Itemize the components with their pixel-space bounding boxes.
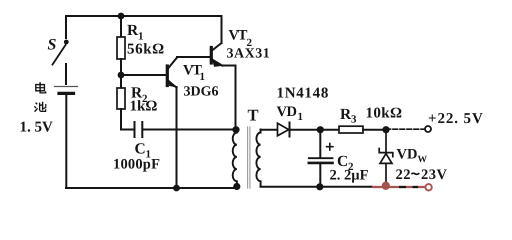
wire R3 right lead <box>363 129 386 131</box>
terminal +22.5V <box>425 126 431 132</box>
transformer T primary winding <box>233 133 237 185</box>
wire C1 to primary top <box>143 129 234 131</box>
transformer core <box>248 127 250 188</box>
wire R1 bottom lead <box>120 59 122 75</box>
label battery 池 <box>34 102 45 112</box>
svg-text:C: C <box>135 141 146 158</box>
label battery 电 <box>36 82 46 93</box>
svg-text:3DG6: 3DG6 <box>184 85 219 100</box>
wire diode to node <box>290 129 320 131</box>
resistor R1 56k <box>117 37 125 59</box>
node primary bottom <box>233 183 240 190</box>
wire node to + terminal (dashed) <box>386 128 425 130</box>
svg-text:22: 22 <box>396 167 412 183</box>
wire zener top lead <box>385 133 387 152</box>
node C2 bottom <box>316 183 323 190</box>
terminal bottom (red) <box>425 184 431 190</box>
wire VT1 collector to VT2 base <box>177 56 210 58</box>
wire black dashes over red rail <box>399 186 418 188</box>
switch S <box>53 40 69 65</box>
diode VD1 1N4148 <box>278 123 290 137</box>
wire left rail upper <box>65 16 67 38</box>
wire secondary top to diode <box>261 129 278 131</box>
transistor VT2 3AX31 <box>211 43 222 67</box>
svg-text:1: 1 <box>298 111 304 123</box>
svg-text:VD: VD <box>277 104 297 120</box>
wire VT2 collector to top rail <box>221 16 223 43</box>
svg-text:3AX31: 3AX31 <box>227 47 271 62</box>
capacitor C2 2.2uF <box>309 158 333 163</box>
wire battery to bottom rail <box>65 95 67 188</box>
svg-text:10kΩ: 10kΩ <box>366 106 403 122</box>
wire base node to VT1 <box>121 74 166 76</box>
node base of VT1 <box>118 72 125 79</box>
wire VT2 emitter to primary top <box>222 66 236 127</box>
wire node down to C2 <box>319 130 321 157</box>
capacitor C1 1000pF <box>135 122 143 137</box>
svg-text:S: S <box>48 37 57 54</box>
transformer T secondary winding <box>256 130 260 187</box>
svg-text:VT: VT <box>229 28 248 44</box>
wire bottom rail left <box>66 187 237 189</box>
svg-text:VD: VD <box>397 147 418 163</box>
svg-text:1: 1 <box>200 71 206 83</box>
node R3 / zener top <box>382 126 389 133</box>
wire bottom rail secondary black part <box>261 186 373 188</box>
svg-text:23V: 23V <box>421 167 448 183</box>
svg-text:56kΩ: 56kΩ <box>127 42 165 58</box>
svg-text:1kΩ: 1kΩ <box>130 99 158 115</box>
wire R3 left lead <box>320 129 339 131</box>
wire R2 top lead <box>120 75 122 88</box>
svg-text:W: W <box>418 155 428 165</box>
wire C2 to bottom rail <box>319 165 321 187</box>
svg-text:2. 2µF: 2. 2µF <box>330 168 369 184</box>
battery B1 plates <box>55 87 78 94</box>
svg-text:+22. 5V: +22. 5V <box>428 111 484 127</box>
node VT1 emitter / ground <box>173 185 180 192</box>
resistor R2 1k <box>117 88 125 109</box>
wire VT1 emitter down <box>176 87 178 188</box>
svg-text:1N4148: 1N4148 <box>277 86 330 102</box>
capacitor C2 plus sign <box>327 144 333 151</box>
transistor VT1 3DG6 <box>167 58 177 88</box>
wire top rail <box>66 15 221 17</box>
node diode / C2 / R3 <box>317 126 324 133</box>
node top rail / R1 <box>118 13 125 20</box>
svg-text:T: T <box>248 106 259 125</box>
wire bottom rail red segment <box>372 186 425 188</box>
wire R2 bottom lead <box>121 109 133 130</box>
wire zener bottom lead <box>385 164 387 183</box>
resistor R3 10k <box>339 126 363 133</box>
wire R1 top lead <box>120 16 122 37</box>
node primary top <box>232 126 239 133</box>
zener diode VDw <box>379 149 393 164</box>
svg-text:1. 5V: 1. 5V <box>20 120 54 136</box>
wire switch to battery <box>65 64 67 84</box>
svg-text:3: 3 <box>351 114 357 126</box>
node zener bottom (red) <box>382 182 390 190</box>
svg-text:1000pF: 1000pF <box>113 157 160 173</box>
